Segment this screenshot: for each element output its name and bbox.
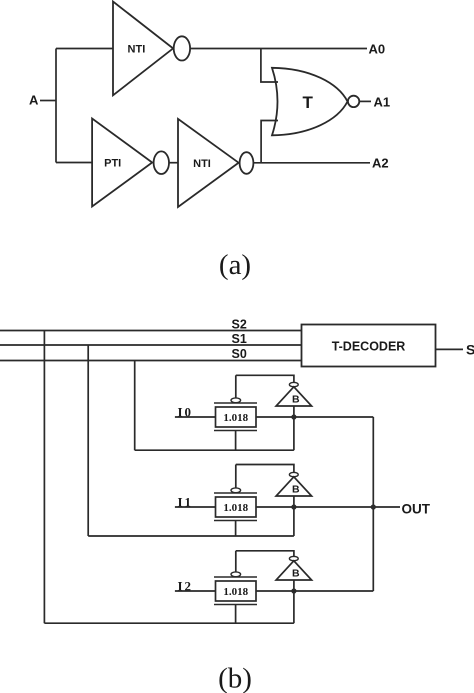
X0 gate bubble [231, 398, 241, 403]
transmission-gate X0 box 1.018 [216, 407, 257, 427]
node I2 [175, 579, 216, 594]
bus S0 [0, 347, 302, 361]
inverter B1 [276, 477, 312, 496]
bubble B1 input [289, 472, 298, 476]
svg-text:1.018: 1.018 [223, 412, 248, 424]
X0 bottom bar [214, 430, 257, 432]
svg-text:PTI: PTI [104, 158, 121, 170]
decoder U4 T-DECODER [302, 325, 436, 367]
junction OUT tie [371, 504, 376, 509]
wire I1 bottom return [88, 535, 294, 537]
bus S2 [0, 318, 302, 332]
X1 gate bubble [231, 488, 241, 493]
bubble B2 input [289, 556, 298, 560]
inverter B2 [276, 561, 312, 580]
svg-text:B: B [292, 394, 300, 406]
svg-text:A1: A1 [374, 95, 391, 110]
transmission-gate X1 box 1.018 [216, 497, 257, 517]
X2 gate bubble [231, 572, 241, 577]
wire X0 gate to B0 [236, 375, 294, 382]
wire X1 output OUT [256, 506, 400, 508]
inverter B0 [276, 387, 312, 406]
bubble T output [348, 96, 359, 107]
bus S1 [0, 332, 302, 346]
wire X0 gate up [235, 375, 237, 398]
svg-text:B: B [292, 484, 300, 496]
wire X1 bottom terminal [235, 521, 237, 537]
inverter U2 PTI [92, 119, 152, 207]
svg-text:A0: A0 [369, 42, 386, 57]
svg-text:A: A [29, 93, 39, 108]
nor-gate T [272, 68, 348, 136]
svg-text:S: S [466, 342, 474, 358]
wire B1 base down [293, 496, 295, 536]
bubble B0 input [289, 382, 298, 386]
node I0 [175, 405, 216, 420]
junction X0 output [291, 414, 296, 419]
svg-text:(a): (a) [219, 249, 251, 281]
wire S output [436, 348, 464, 350]
inverter U1 NTI [113, 2, 173, 96]
wire A2 [253, 162, 370, 164]
bubble U1 output [174, 36, 190, 60]
wire T lower input [261, 121, 278, 163]
wire input branch vertical [55, 49, 57, 163]
node I1 [175, 495, 216, 510]
svg-text:NTI: NTI [128, 44, 146, 56]
inverter U3 NTI [178, 119, 239, 207]
X1 gate bar [214, 492, 257, 494]
wire S2 vertical drop [43, 331, 45, 624]
svg-text:T-DECODER: T-DECODER [332, 340, 406, 354]
junction X1 output [291, 504, 296, 509]
svg-text:T: T [303, 93, 314, 112]
transmission-gate X2 box 1.018 [216, 581, 257, 601]
svg-text:1.018: 1.018 [223, 586, 248, 598]
svg-text:S1: S1 [232, 332, 247, 346]
wire X2 output [256, 590, 373, 592]
wire X1 gate up [235, 465, 237, 489]
node A [29, 93, 56, 108]
svg-text:B: B [292, 568, 300, 580]
wire I0 bottom return [135, 449, 294, 451]
svg-text:1.018: 1.018 [223, 502, 248, 514]
wire I2 bottom return [44, 622, 294, 624]
bubble U2 output [154, 151, 169, 174]
svg-text:S2: S2 [232, 318, 247, 332]
bubble U3 output [240, 152, 254, 174]
wire T upper input [261, 49, 278, 83]
svg-text:(b): (b) [218, 663, 252, 693]
wire A1 [359, 100, 371, 102]
wire S0 vertical drop [134, 361, 136, 451]
wire X0 bottom terminal [235, 431, 237, 451]
wire X2 gate up [235, 551, 237, 572]
wire X2 bottom terminal [235, 605, 237, 624]
wire S1 vertical drop [87, 345, 89, 536]
wire X1 gate to B1 [236, 465, 294, 473]
junction X2 output [291, 588, 296, 593]
X2 bottom bar [214, 604, 257, 606]
X0 gate bar [214, 402, 257, 404]
wire X2 gate to B2 [236, 551, 294, 557]
wire A0 [190, 48, 367, 50]
svg-text:A2: A2 [372, 156, 389, 171]
wire B2 base down [293, 580, 295, 623]
X1 bottom bar [214, 520, 257, 522]
X2 gate bar [214, 576, 257, 578]
wire U2 to U3 [169, 162, 178, 164]
wire X0 output [256, 416, 373, 418]
svg-text:NTI: NTI [193, 158, 211, 170]
wire right tie vertical [372, 417, 374, 591]
svg-text:OUT: OUT [402, 502, 431, 517]
svg-text:S0: S0 [232, 347, 247, 361]
wire B0 base down [293, 406, 295, 450]
wire to NTI1 [56, 48, 113, 50]
wire to PTI [56, 162, 92, 164]
